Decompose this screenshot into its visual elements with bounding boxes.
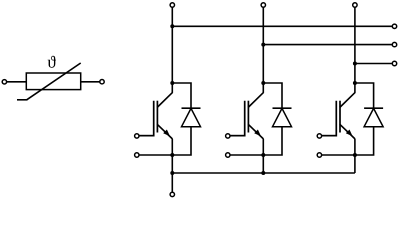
node collector bus junction leg 2 xyxy=(261,43,265,47)
node emitter junction leg 2 xyxy=(261,153,265,157)
wire auxiliary emitter lead leg 3 xyxy=(322,154,355,156)
node emitter junction leg 3 xyxy=(353,153,357,157)
wire auxiliary emitter lead leg 1 xyxy=(139,154,172,156)
terminal collector top leg 2 xyxy=(261,3,265,7)
wire collector bus to right terminal leg 3 xyxy=(355,63,392,65)
terminal thermistor pin right xyxy=(100,80,104,84)
wire gate lead leg 2 xyxy=(230,135,245,137)
node diode branch junction leg 1 xyxy=(170,81,174,85)
wire auxiliary emitter lead leg 2 xyxy=(230,154,263,156)
terminal auxiliary emitter leg 2 xyxy=(226,153,230,157)
wire collector bus to right terminal leg 1 xyxy=(172,25,392,27)
thermistor temperature label ϑ xyxy=(48,56,56,68)
wire emitter vertical leg 3 xyxy=(354,139,356,173)
node bottom bus junction leg 2 xyxy=(261,171,265,175)
wire gate lead leg 3 xyxy=(322,135,337,137)
diode D2 (freewheeling, antiparallel) xyxy=(273,108,292,127)
terminal gate leg 2 xyxy=(226,134,230,138)
wire emitter vertical leg 2 xyxy=(262,139,264,173)
transistor IGBT Q1 xyxy=(139,92,173,139)
terminal collector right leg 2 xyxy=(392,42,396,46)
transistor IGBT Q3 xyxy=(322,92,356,139)
terminal collector right leg 3 xyxy=(392,61,396,65)
wire thermistor right lead xyxy=(81,81,100,83)
wire thermistor left lead xyxy=(7,81,27,83)
terminal emitter bottom xyxy=(170,192,174,196)
wire diode cathode branch leg 3 xyxy=(355,83,374,108)
node bottom bus junction leg 1 xyxy=(170,171,174,175)
terminal auxiliary emitter leg 3 xyxy=(317,153,321,157)
wire collector vertical leg 2 xyxy=(262,7,264,93)
wire diode cathode branch leg 1 xyxy=(172,83,191,108)
wire diode anode return leg 3 xyxy=(355,127,374,155)
wire emitter bottom bus xyxy=(172,172,355,174)
wire diode anode return leg 2 xyxy=(263,127,282,155)
node emitter junction leg 1 xyxy=(170,153,174,157)
terminal collector top leg 3 xyxy=(353,3,357,7)
diode D1 (freewheeling, antiparallel) xyxy=(182,108,201,127)
node diode branch junction leg 3 xyxy=(353,81,357,85)
wire emitter vertical leg 1 xyxy=(171,139,173,173)
wire collector bus to right terminal leg 2 xyxy=(263,44,392,46)
terminal collector top leg 1 xyxy=(170,3,174,7)
transistor IGBT Q2 xyxy=(230,92,264,139)
thermistor RT1 (temperature sensor) xyxy=(17,63,81,100)
wire diode cathode branch leg 2 xyxy=(263,83,282,108)
terminal gate leg 1 xyxy=(135,134,139,138)
node diode branch junction leg 2 xyxy=(261,81,265,85)
node collector bus junction leg 3 xyxy=(353,62,357,66)
wire collector vertical leg 1 xyxy=(171,7,173,93)
terminal gate leg 3 xyxy=(317,134,321,138)
terminal collector right leg 1 xyxy=(392,24,396,28)
terminal thermistor pin left xyxy=(2,80,6,84)
diode D3 (freewheeling, antiparallel) xyxy=(364,108,383,127)
wire gate lead leg 1 xyxy=(139,135,154,137)
node collector bus junction leg 1 xyxy=(170,24,174,28)
wire collector vertical leg 3 xyxy=(354,7,356,93)
wire bottom terminal lead xyxy=(171,173,173,192)
wire diode anode return leg 1 xyxy=(172,127,191,155)
terminal auxiliary emitter leg 1 xyxy=(135,153,139,157)
